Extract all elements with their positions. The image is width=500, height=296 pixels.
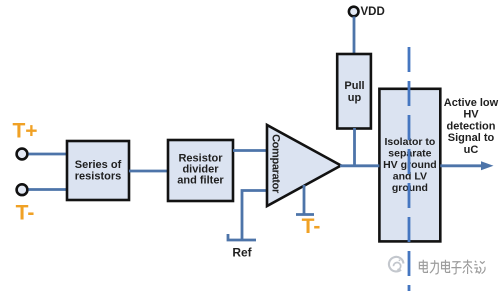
watermark logo — [389, 257, 404, 272]
ground Ref — [228, 234, 256, 240]
svg-text:resistors: resistors — [75, 171, 121, 183]
svg-text:detection: detection — [447, 120, 496, 132]
wire T+ to series resistors — [29, 153, 68, 156]
svg-text:up: up — [348, 92, 362, 104]
svg-text:and filter: and filter — [177, 175, 224, 187]
wire ref to comparator minus input — [242, 191, 267, 241]
terminal T+ — [17, 149, 28, 160]
svg-text:Pull: Pull — [344, 80, 364, 92]
output arrow head — [481, 161, 494, 170]
svg-text:Comparator: Comparator — [270, 134, 282, 194]
wire isolator output to arrow — [440, 164, 482, 167]
svg-text:uC: uC — [464, 144, 479, 156]
block: Resistor divider and filter — [168, 140, 233, 201]
block: Pull up resistor — [337, 54, 371, 129]
wire divider to comparator plus input — [233, 149, 267, 152]
wire T- to series resistors — [29, 188, 68, 191]
wire comparator output to isolator — [340, 164, 379, 167]
block: Isolator — [379, 89, 440, 242]
isolation barrier dashed line — [408, 47, 411, 291]
output signal label — [444, 97, 499, 156]
svg-text:VDD: VDD — [361, 6, 385, 18]
wire pull up to output node — [353, 128, 356, 166]
svg-text:T+: T+ — [12, 120, 37, 143]
isolator text — [383, 136, 437, 194]
wire VDD to pull up — [353, 17, 356, 55]
svg-text:HV: HV — [463, 109, 479, 121]
terminal T- — [17, 184, 28, 195]
ground bar below comparator — [296, 213, 314, 216]
svg-text:Active low: Active low — [444, 97, 499, 109]
op-amp comparator — [267, 125, 341, 206]
watermark text — [419, 260, 485, 274]
wire series resistors to divider — [129, 170, 168, 173]
power VDD terminal — [349, 7, 359, 17]
svg-text:Signal to: Signal to — [448, 132, 495, 144]
wire comparator to ground T- — [303, 185, 306, 214]
svg-text:T-: T- — [302, 215, 321, 238]
svg-text:Series of: Series of — [75, 159, 122, 171]
block: Series of resistors — [67, 141, 129, 200]
svg-text:Ref: Ref — [232, 246, 252, 260]
svg-text:T-: T- — [16, 202, 35, 225]
